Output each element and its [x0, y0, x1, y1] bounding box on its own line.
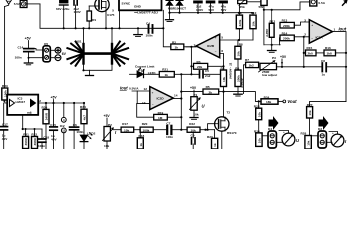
- wire IC1 left pin down: [119, 10, 121, 28]
- svg-text:10k: 10k: [251, 21, 255, 26]
- svg-text:390R: 390R: [24, 137, 28, 145]
- node C4 ground: [137, 27, 139, 29]
- svg-text:Vout: Vout: [287, 99, 297, 104]
- wire T2 drain up: [223, 92, 225, 117]
- wire R14 left to ground: [279, 38, 282, 45]
- node IC1-bus: [118, 27, 120, 29]
- wire R6 bottom: [237, 87, 239, 94]
- node C2-bus: [75, 27, 77, 29]
- svg-text:10k: 10k: [237, 51, 241, 56]
- node x264: [263, 9, 265, 11]
- wire fuse F3 feed: [264, 2, 310, 10]
- wire IC2 pin11 down: [63, 133, 65, 149]
- wire pin7 out: [186, 46, 196, 48]
- svg-text:R34: R34: [80, 105, 86, 109]
- resistor R6 vertical: [235, 70, 241, 87]
- IC1 box: [119, 0, 162, 10]
- node C11-bus: [209, 12, 211, 14]
- svg-text:14: 14: [174, 94, 178, 98]
- meter M2 I: [331, 134, 344, 147]
- wire IC1 gnd pin down: [162, 10, 164, 28]
- IC3 arrows: [10, 100, 36, 107]
- svg-text:K4: K4: [268, 127, 272, 131]
- resistor R3: [194, 63, 208, 69]
- svg-text:–: –: [311, 37, 313, 41]
- svg-text:5: 5: [221, 36, 223, 40]
- wire R27 top rail: [310, 102, 347, 107]
- svg-text:0.5A: 0.5A: [318, 1, 325, 5]
- wire left edge vertical: [4, 7, 6, 89]
- wire R13 to IC2A pin3: [294, 22, 309, 25]
- svg-text:BS170: BS170: [227, 131, 237, 135]
- svg-text:2: 2: [39, 99, 41, 103]
- wire R15-R16 row: [304, 52, 306, 54]
- capacitor C8: [304, 63, 346, 72]
- svg-text:0.5V/A: 0.5V/A: [129, 87, 139, 91]
- svg-text:1k: 1k: [175, 46, 179, 50]
- svg-text:100k: 100k: [143, 128, 150, 132]
- svg-text:5W: 5W: [259, 5, 264, 9]
- wire vertical x264: [263, 5, 265, 44]
- wire R3 left: [191, 65, 193, 67]
- potentiometer P1: [190, 97, 201, 111]
- capacitor C4: [149, 25, 164, 33]
- resistor R34 vertical: [81, 109, 87, 124]
- svg-text:100V: 100V: [196, 8, 204, 12]
- arrow K4: [269, 116, 279, 130]
- resistor R12 small vertical: [269, 23, 274, 37]
- svg-text:1M: 1M: [158, 116, 163, 120]
- wire M2 top: [329, 132, 338, 135]
- resistor R15: [306, 50, 317, 56]
- svg-text:12: 12: [144, 87, 148, 91]
- wire R9 R10 bottoms: [238, 29, 240, 40]
- wire R22 right: [200, 129, 215, 131]
- node C1-bus: [63, 27, 65, 29]
- resistor R13: [280, 22, 294, 28]
- svg-text:Iout: Iout: [339, 27, 347, 32]
- wire R30 top: [45, 103, 47, 109]
- svg-text:+5V: +5V: [280, 55, 287, 59]
- svg-text:LED2: LED2: [87, 132, 95, 136]
- wire fuse to bus corner: [27, 3, 41, 5]
- svg-text:63V 220u: 63V 220u: [56, 7, 70, 11]
- bus wire right section: [170, 12, 253, 14]
- svg-text:R23: R23: [207, 135, 213, 139]
- wire P3 out: [277, 66, 304, 68]
- wire IC2A output: [332, 32, 346, 102]
- node C12-bus: [222, 12, 224, 14]
- left R33 resistor: [2, 88, 8, 100]
- capacitor C1 electrolytic: [60, 0, 69, 28]
- resistor R26 vertical: [256, 133, 262, 147]
- svg-text:1k: 1k: [165, 73, 169, 77]
- wire P3 wiper: [281, 59, 283, 67]
- svg-text:10k: 10k: [308, 110, 312, 115]
- wire HS1 to bus left: [83, 28, 85, 44]
- node R1-bus: [88, 27, 90, 29]
- wire R14 to IC2A pin2: [294, 36, 309, 38]
- resistor R31 vertical: [23, 137, 29, 149]
- wire +5V down: [28, 41, 30, 49]
- wire R30 bottom: [45, 124, 47, 149]
- node C8 right: [345, 66, 347, 68]
- transistor T2: [215, 117, 229, 131]
- wire R24 left: [224, 92, 262, 102]
- resistor R2: [171, 44, 184, 50]
- svg-text:040054 - 11: 040054 - 11: [229, 62, 233, 79]
- wire pin12 net from R20: [136, 91, 138, 103]
- svg-text:C15: C15: [50, 123, 56, 127]
- svg-text:2: 2: [304, 33, 306, 37]
- wire T1 source to bus: [105, 12, 107, 29]
- wire R8 top: [237, 40, 239, 46]
- svg-text:1k: 1k: [139, 143, 143, 147]
- wire M1 top: [279, 131, 289, 134]
- op-amp IC2A: [309, 20, 332, 44]
- resistor R32 vertical: [32, 137, 38, 149]
- wire P4 to R11: [247, 1, 261, 3]
- svg-text:200k: 200k: [283, 24, 290, 28]
- wire C14 to K5 bottom: [29, 57, 44, 59]
- node HS1 gnd: [82, 69, 84, 71]
- svg-text:4.053V: 4.053V: [240, 77, 244, 89]
- resistor R9 vertical: [236, 15, 242, 29]
- wire K4 leads: [262, 135, 268, 137]
- svg-text:5: 5: [112, 9, 114, 13]
- svg-text:C6: C6: [73, 123, 77, 127]
- svg-text:SYNC: SYNC: [122, 2, 131, 6]
- IC2 supply circle pin11: [61, 128, 66, 133]
- svg-text:LED1: LED1: [148, 71, 156, 75]
- wire HS1 to bus right: [111, 28, 113, 44]
- resistor R19: [154, 114, 168, 120]
- resistor R17: [121, 127, 134, 132]
- op-amp IC2D: [150, 87, 174, 110]
- svg-text:R4: R4: [221, 67, 225, 71]
- diode LED2: [80, 124, 92, 149]
- svg-text:C5: C5: [205, 69, 209, 73]
- svg-text:100n: 100n: [38, 144, 45, 148]
- wire pin13 feedback: [137, 103, 154, 117]
- capacitor C15: [50, 127, 58, 149]
- wire T2 source down: [221, 131, 223, 149]
- svg-text:40V: 40V: [51, 137, 57, 141]
- node adj: [22, 128, 24, 130]
- svg-text:2k: 2k: [209, 90, 213, 94]
- svg-text:R22: R22: [189, 122, 195, 126]
- svg-text:4k7: 4k7: [83, 115, 87, 120]
- resistor R21: [159, 72, 174, 78]
- svg-text:IC2A: IC2A: [316, 36, 324, 40]
- capacitor C12: [219, 1, 228, 13]
- svg-text:R1: R1: [92, 18, 96, 22]
- svg-text:K3: K3: [318, 127, 322, 131]
- svg-text:390R: 390R: [33, 137, 37, 145]
- capacitor C5: [200, 71, 224, 78]
- svg-text:2n2: 2n2: [205, 74, 211, 78]
- node pin5-R8: [238, 39, 240, 41]
- wire +5V P2: [106, 118, 108, 127]
- svg-text:MBR1060CT: MBR1060CT: [168, 7, 186, 11]
- resistor R11 5W: [261, 0, 267, 5]
- svg-text:+: +: [311, 23, 313, 27]
- svg-text:U175: U175: [107, 13, 115, 17]
- node C4 right: [162, 27, 164, 29]
- node pin7: [190, 46, 192, 48]
- svg-text:low adjust: low adjust: [262, 73, 277, 77]
- capacitor C17: [0, 103, 8, 149]
- svg-text:40V: 40V: [2, 137, 8, 141]
- wire R25 top: [258, 101, 260, 108]
- resistor R20: [140, 127, 153, 132]
- connector K3: [318, 131, 326, 148]
- ground C14: [24, 63, 32, 65]
- ground HS1: [86, 70, 94, 75]
- capacitor C18: [38, 129, 46, 149]
- svg-text:4: 4: [63, 118, 65, 122]
- wire R4 bottom: [223, 87, 225, 92]
- wire R1 leads: [88, 6, 90, 11]
- svg-text:18k: 18k: [266, 100, 271, 104]
- svg-text:Iout: Iout: [120, 86, 128, 91]
- svg-text:10k: 10k: [124, 128, 129, 132]
- wire pin5: [220, 39, 253, 41]
- diode D2: [176, 0, 183, 12]
- battery BT1 terminals: [55, 47, 61, 60]
- connector K4: [268, 131, 276, 148]
- wire R19 to output: [167, 116, 181, 118]
- svg-text:+5V: +5V: [51, 95, 58, 99]
- svg-text:C18: C18: [43, 135, 49, 139]
- svg-text:IC2: IC2: [60, 124, 65, 128]
- wire P1 top: [193, 90, 195, 97]
- svg-text:GND: GND: [134, 4, 142, 8]
- svg-text:C7: C7: [166, 122, 170, 126]
- svg-text:100n: 100n: [76, 130, 83, 134]
- svg-text:R12: R12: [270, 20, 276, 24]
- wire R33 to IC3: [5, 100, 7, 103]
- svg-text:10k: 10k: [222, 77, 226, 82]
- resistor R5: [203, 89, 219, 94]
- svg-text:3: 3: [304, 18, 306, 22]
- wire R18 top: [139, 130, 141, 138]
- wire +5V down: [53, 100, 55, 127]
- svg-text:–: –: [152, 102, 154, 106]
- svg-text:10k: 10k: [307, 140, 311, 145]
- svg-text:K5: K5: [44, 42, 48, 46]
- svg-text:+5V: +5V: [190, 86, 197, 90]
- resistor R7: [246, 62, 259, 67]
- svg-text:100n: 100n: [146, 34, 153, 38]
- resistor R4 vertical: [221, 70, 227, 87]
- wire pin6 down: [220, 54, 224, 71]
- capacitor C9: [192, 132, 196, 149]
- resistor R27 vertical: [307, 107, 313, 118]
- arrow K3: [319, 116, 329, 130]
- wire R17-R20: [134, 129, 140, 131]
- svg-text:C8: C8: [321, 59, 325, 63]
- resistor R23 vertical: [212, 138, 218, 149]
- svg-text:240R: 240R: [45, 112, 49, 120]
- wire R31 R32 top: [23, 128, 42, 130]
- svg-text:T2: T2: [227, 111, 231, 115]
- svg-text:R20: R20: [142, 122, 148, 126]
- transistor T1: [95, 0, 109, 12]
- ground under diodes: [166, 13, 174, 22]
- svg-text:4.05V: 4.05V: [265, 28, 269, 38]
- fuse F1 holder symbol: [6, 0, 12, 4]
- wire pin2 node down: [303, 37, 305, 67]
- svg-text:+5V: +5V: [25, 37, 32, 41]
- svg-text:1u: 1u: [322, 73, 326, 77]
- node R16 out: [345, 52, 347, 54]
- capacitor C6: [70, 103, 79, 149]
- wire R34 top: [83, 103, 85, 109]
- resistor R30 vertical: [43, 109, 49, 123]
- wire P2 wiper to R17: [114, 129, 122, 131]
- wire R5 right: [219, 91, 224, 93]
- svg-text:LM317: LM317: [16, 100, 26, 104]
- wire HS1 bottom: [84, 64, 113, 71]
- wire P2 bottom: [106, 141, 108, 149]
- node C10-bus: [197, 12, 199, 14]
- wire R10 top: [252, 13, 254, 15]
- svg-text:C17: C17: [2, 122, 8, 126]
- svg-text:50V: 50V: [209, 8, 215, 12]
- svg-text:2k0: 2k0: [308, 52, 313, 56]
- wire R6 top: [237, 59, 239, 70]
- wire R21 right: [174, 73, 198, 75]
- wire R3 right: [208, 65, 224, 67]
- resistor R1 vertical: [87, 11, 92, 21]
- wire K5 to terminals: [50, 49, 55, 51]
- capacitor C2: [74, 0, 77, 28]
- svg-text:6V: 6V: [62, 52, 67, 56]
- svg-text:adj: adj: [27, 110, 32, 114]
- svg-text:–: –: [215, 49, 217, 53]
- svg-text:HS1: HS1: [76, 40, 82, 44]
- svg-text:IC2B: IC2B: [207, 44, 215, 48]
- wire R25-R26: [258, 120, 260, 133]
- wire IC2D output: [173, 98, 181, 100]
- capacitor C7: [153, 126, 187, 134]
- fuse F2 box: [20, 0, 27, 7]
- svg-text:100V: 100V: [74, 10, 82, 14]
- resistor R18 vertical: [137, 138, 143, 149]
- svg-text:LM2677T-ADJ: LM2677T-ADJ: [137, 11, 158, 15]
- op-amp IC2B: [196, 34, 220, 58]
- resistor R24: [261, 99, 278, 104]
- capacitor C10: [194, 1, 203, 13]
- wire R2 row: [163, 28, 171, 47]
- wire T1 gate to R1: [89, 5, 99, 7]
- wire C14 to K5 top: [29, 49, 44, 50]
- svg-text:11: 11: [62, 129, 66, 133]
- svg-text:200k: 200k: [283, 37, 290, 41]
- fuse F3 box: [310, 0, 317, 6]
- capacitor C14: [24, 49, 34, 63]
- heatsink symbol HS1: [67, 42, 128, 66]
- wire R27-R28: [309, 118, 311, 136]
- ground under R14: [268, 45, 277, 53]
- wire R5 left: [181, 91, 203, 93]
- wire pin12: [132, 90, 150, 92]
- connector K5: [43, 46, 50, 62]
- wire adj down: [22, 115, 24, 129]
- svg-text:C4: C4: [146, 21, 150, 25]
- svg-text:1k8: 1k8: [327, 52, 332, 56]
- svg-text:+5V: +5V: [104, 114, 111, 118]
- svg-text:10k: 10k: [257, 138, 261, 143]
- wire IC3 out rail: [38, 102, 84, 104]
- svg-text:25k: 25k: [240, 5, 245, 9]
- potentiometer P4: [238, 0, 247, 6]
- wire R7 left: [244, 65, 246, 94]
- svg-text:R17: R17: [122, 122, 128, 126]
- svg-text:R33: R33: [2, 84, 8, 88]
- svg-text:10k: 10k: [191, 128, 196, 132]
- svg-text:100n: 100n: [15, 55, 22, 59]
- svg-text:P3: P3: [272, 56, 276, 60]
- svg-text:220k: 220k: [238, 19, 242, 26]
- svg-text:+: +: [152, 90, 154, 94]
- arrow off-page top right: [343, 0, 348, 5]
- IC3 box: [7, 95, 38, 115]
- IC2 supply circle pin4: [61, 117, 66, 122]
- diode D1: [166, 0, 173, 12]
- resistor R14: [280, 35, 294, 41]
- svg-text:IC2D: IC2D: [157, 97, 165, 101]
- svg-text:R2: R2: [172, 40, 176, 44]
- resistor R8 vertical: [235, 46, 241, 59]
- node T1-bus: [105, 27, 107, 29]
- wire T2 gate: [208, 124, 215, 130]
- resistor R16: [324, 50, 336, 56]
- potentiometer P3: [259, 60, 277, 72]
- svg-text:6: 6: [221, 49, 223, 53]
- wire R24 right Vout: [278, 100, 283, 102]
- svg-text:50V: 50V: [221, 8, 227, 12]
- svg-text:100n: 100n: [166, 135, 173, 139]
- wire x181 vertical: [180, 74, 182, 129]
- svg-text:+: +: [215, 36, 217, 40]
- svg-text:1k2: 1k2: [249, 64, 254, 68]
- wire K3 leads: [311, 135, 318, 137]
- ground under C4: [134, 28, 142, 36]
- wire R2 to pin7 node: [184, 46, 196, 48]
- meter M1 U: [282, 133, 295, 146]
- resistor R28 vertical: [305, 136, 311, 150]
- svg-text:10k: 10k: [257, 112, 261, 117]
- svg-text:1: 1: [334, 28, 336, 32]
- svg-text:C14: C14: [18, 45, 24, 49]
- resistor R22: [187, 127, 200, 132]
- svg-text:1k: 1k: [213, 143, 217, 147]
- capacitor C11: [206, 1, 215, 13]
- wire IC2 pin4 up: [63, 103, 65, 117]
- potentiometer P2: [103, 127, 115, 142]
- resistor R10 vertical: [250, 15, 256, 29]
- svg-text:C9: C9: [191, 133, 195, 137]
- wire P4 to R9: [238, 4, 240, 16]
- resistor R25 vertical: [256, 108, 262, 120]
- svg-text:20k: 20k: [197, 65, 202, 69]
- main bus wire top-left: [40, 4, 162, 28]
- ground P1: [190, 110, 198, 119]
